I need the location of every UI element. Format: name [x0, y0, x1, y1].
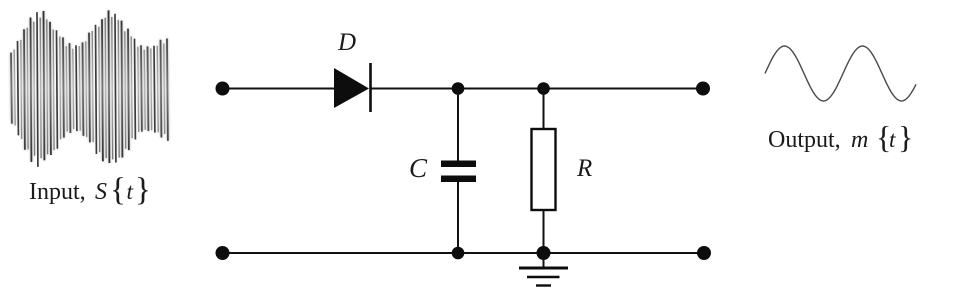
ground — [519, 253, 568, 286]
svg-text:}: } — [135, 172, 151, 208]
node ground junction — [537, 246, 551, 260]
node A diode-capacitor junction — [452, 82, 465, 95]
svg-text:{: { — [110, 172, 126, 208]
svg-text:D: D — [337, 29, 356, 56]
input AM waveform S(t) — [11, 10, 168, 167]
capacitor C — [441, 161, 476, 183]
output sine wave m(t) — [765, 46, 916, 101]
wire capacitor bottom lead — [457, 182, 459, 253]
wire resistor bottom lead — [543, 210, 545, 253]
resistor R — [532, 129, 556, 210]
wire capacitor top lead — [457, 89, 459, 161]
diode D — [334, 63, 371, 112]
svg-text:R: R — [576, 155, 592, 182]
node output bottom terminal — [697, 246, 711, 260]
wire top rail right segment — [370, 88, 703, 90]
wire top rail left segment — [222, 88, 334, 90]
label Input, S{t} — [29, 172, 151, 208]
svg-text:t: t — [889, 127, 896, 152]
wire bottom rail — [222, 252, 704, 254]
svg-text:m: m — [851, 127, 868, 153]
node B resistor top junction — [537, 82, 550, 95]
svg-text:Input,: Input, — [29, 179, 86, 205]
node input bottom terminal — [216, 246, 230, 260]
svg-text:}: } — [898, 119, 913, 155]
node input top terminal — [216, 82, 230, 96]
label Output, m{t} — [768, 119, 913, 155]
node capacitor bottom junction — [452, 247, 465, 260]
svg-text:C: C — [409, 153, 428, 183]
node output top terminal — [696, 82, 710, 96]
svg-text:Output,: Output, — [768, 127, 841, 153]
wire resistor top lead — [543, 89, 545, 130]
svg-text:t: t — [127, 179, 134, 204]
svg-text:S: S — [95, 179, 107, 205]
